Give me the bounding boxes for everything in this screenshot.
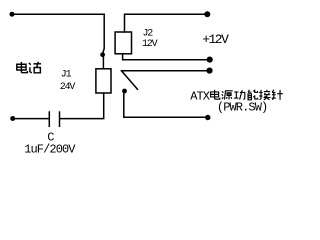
glyph 电 [211, 90, 220, 99]
node TEL-B phone line terminal [10, 116, 15, 121]
wire J1 coil bottom to capacitor C [60, 93, 104, 119]
glyph 源 [222, 91, 233, 100]
relay J2 contact blade [122, 71, 138, 90]
glyph 电 [17, 62, 28, 73]
label 电源功能接针 chinese part [211, 90, 283, 100]
wire J2 coil bottom to PWR.SW pin A [123, 54, 210, 60]
glyph 针 [272, 90, 283, 100]
junction dot above J1 coil [100, 52, 105, 57]
wire capacitor to TEL-B [13, 118, 50, 120]
node +12V terminal [204, 11, 210, 17]
node TEL-A phone line terminal [10, 12, 15, 17]
wire junction to J1 coil top [102, 55, 104, 69]
svg-text:24V: 24V [60, 82, 76, 93]
capacitor C left plate [48, 112, 50, 126]
svg-text:(PWR.SW): (PWR.SW) [217, 101, 267, 115]
svg-text:ATX: ATX [190, 89, 210, 103]
node PWR.SW pin B [206, 68, 212, 74]
wire J2 coil top to +12V terminal [125, 14, 208, 32]
svg-text:1uF/200V: 1uF/200V [24, 142, 76, 156]
wire contact fixed terminal to PWR.SW pin B [122, 70, 210, 72]
svg-text:J1: J1 [61, 69, 72, 80]
glyph 接 [259, 90, 270, 100]
capacitor C right plate [59, 112, 61, 126]
relay coil J2 [115, 32, 131, 54]
node PWR.SW pin A [207, 57, 213, 63]
svg-text:+12V: +12V [202, 32, 229, 47]
junction contact common terminal [122, 89, 127, 94]
wire TEL-A to junction above J1 [12, 14, 104, 53]
glyph 能 [248, 90, 258, 100]
glyph 功 [234, 90, 245, 99]
wire contact common to PWR.SW pin C [124, 91, 208, 117]
glyph 话 [29, 62, 41, 73]
node PWR.SW pin C [205, 115, 210, 120]
svg-text:12V: 12V [142, 39, 158, 50]
label 电话 (telephone) [17, 62, 41, 73]
relay coil J1 [96, 69, 111, 93]
